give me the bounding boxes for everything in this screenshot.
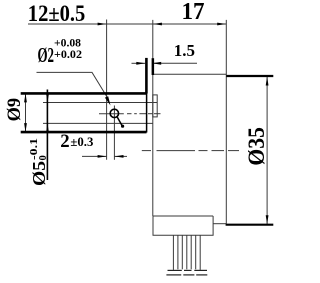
svg-text:0: 0 [38, 155, 49, 160]
svg-text:Ø9: Ø9 [5, 98, 25, 122]
svg-text:±0.3: ±0.3 [70, 134, 93, 149]
svg-text:+0.02: +0.02 [54, 47, 82, 61]
svg-text:Ø2: Ø2 [38, 43, 55, 67]
svg-text:12±0.5: 12±0.5 [28, 1, 86, 26]
svg-text:Ø5: Ø5 [29, 161, 49, 186]
svg-text:Ø35: Ø35 [244, 127, 269, 166]
svg-text:1.5: 1.5 [174, 41, 195, 60]
svg-text:2: 2 [60, 131, 69, 152]
svg-text:17: 17 [182, 0, 205, 25]
